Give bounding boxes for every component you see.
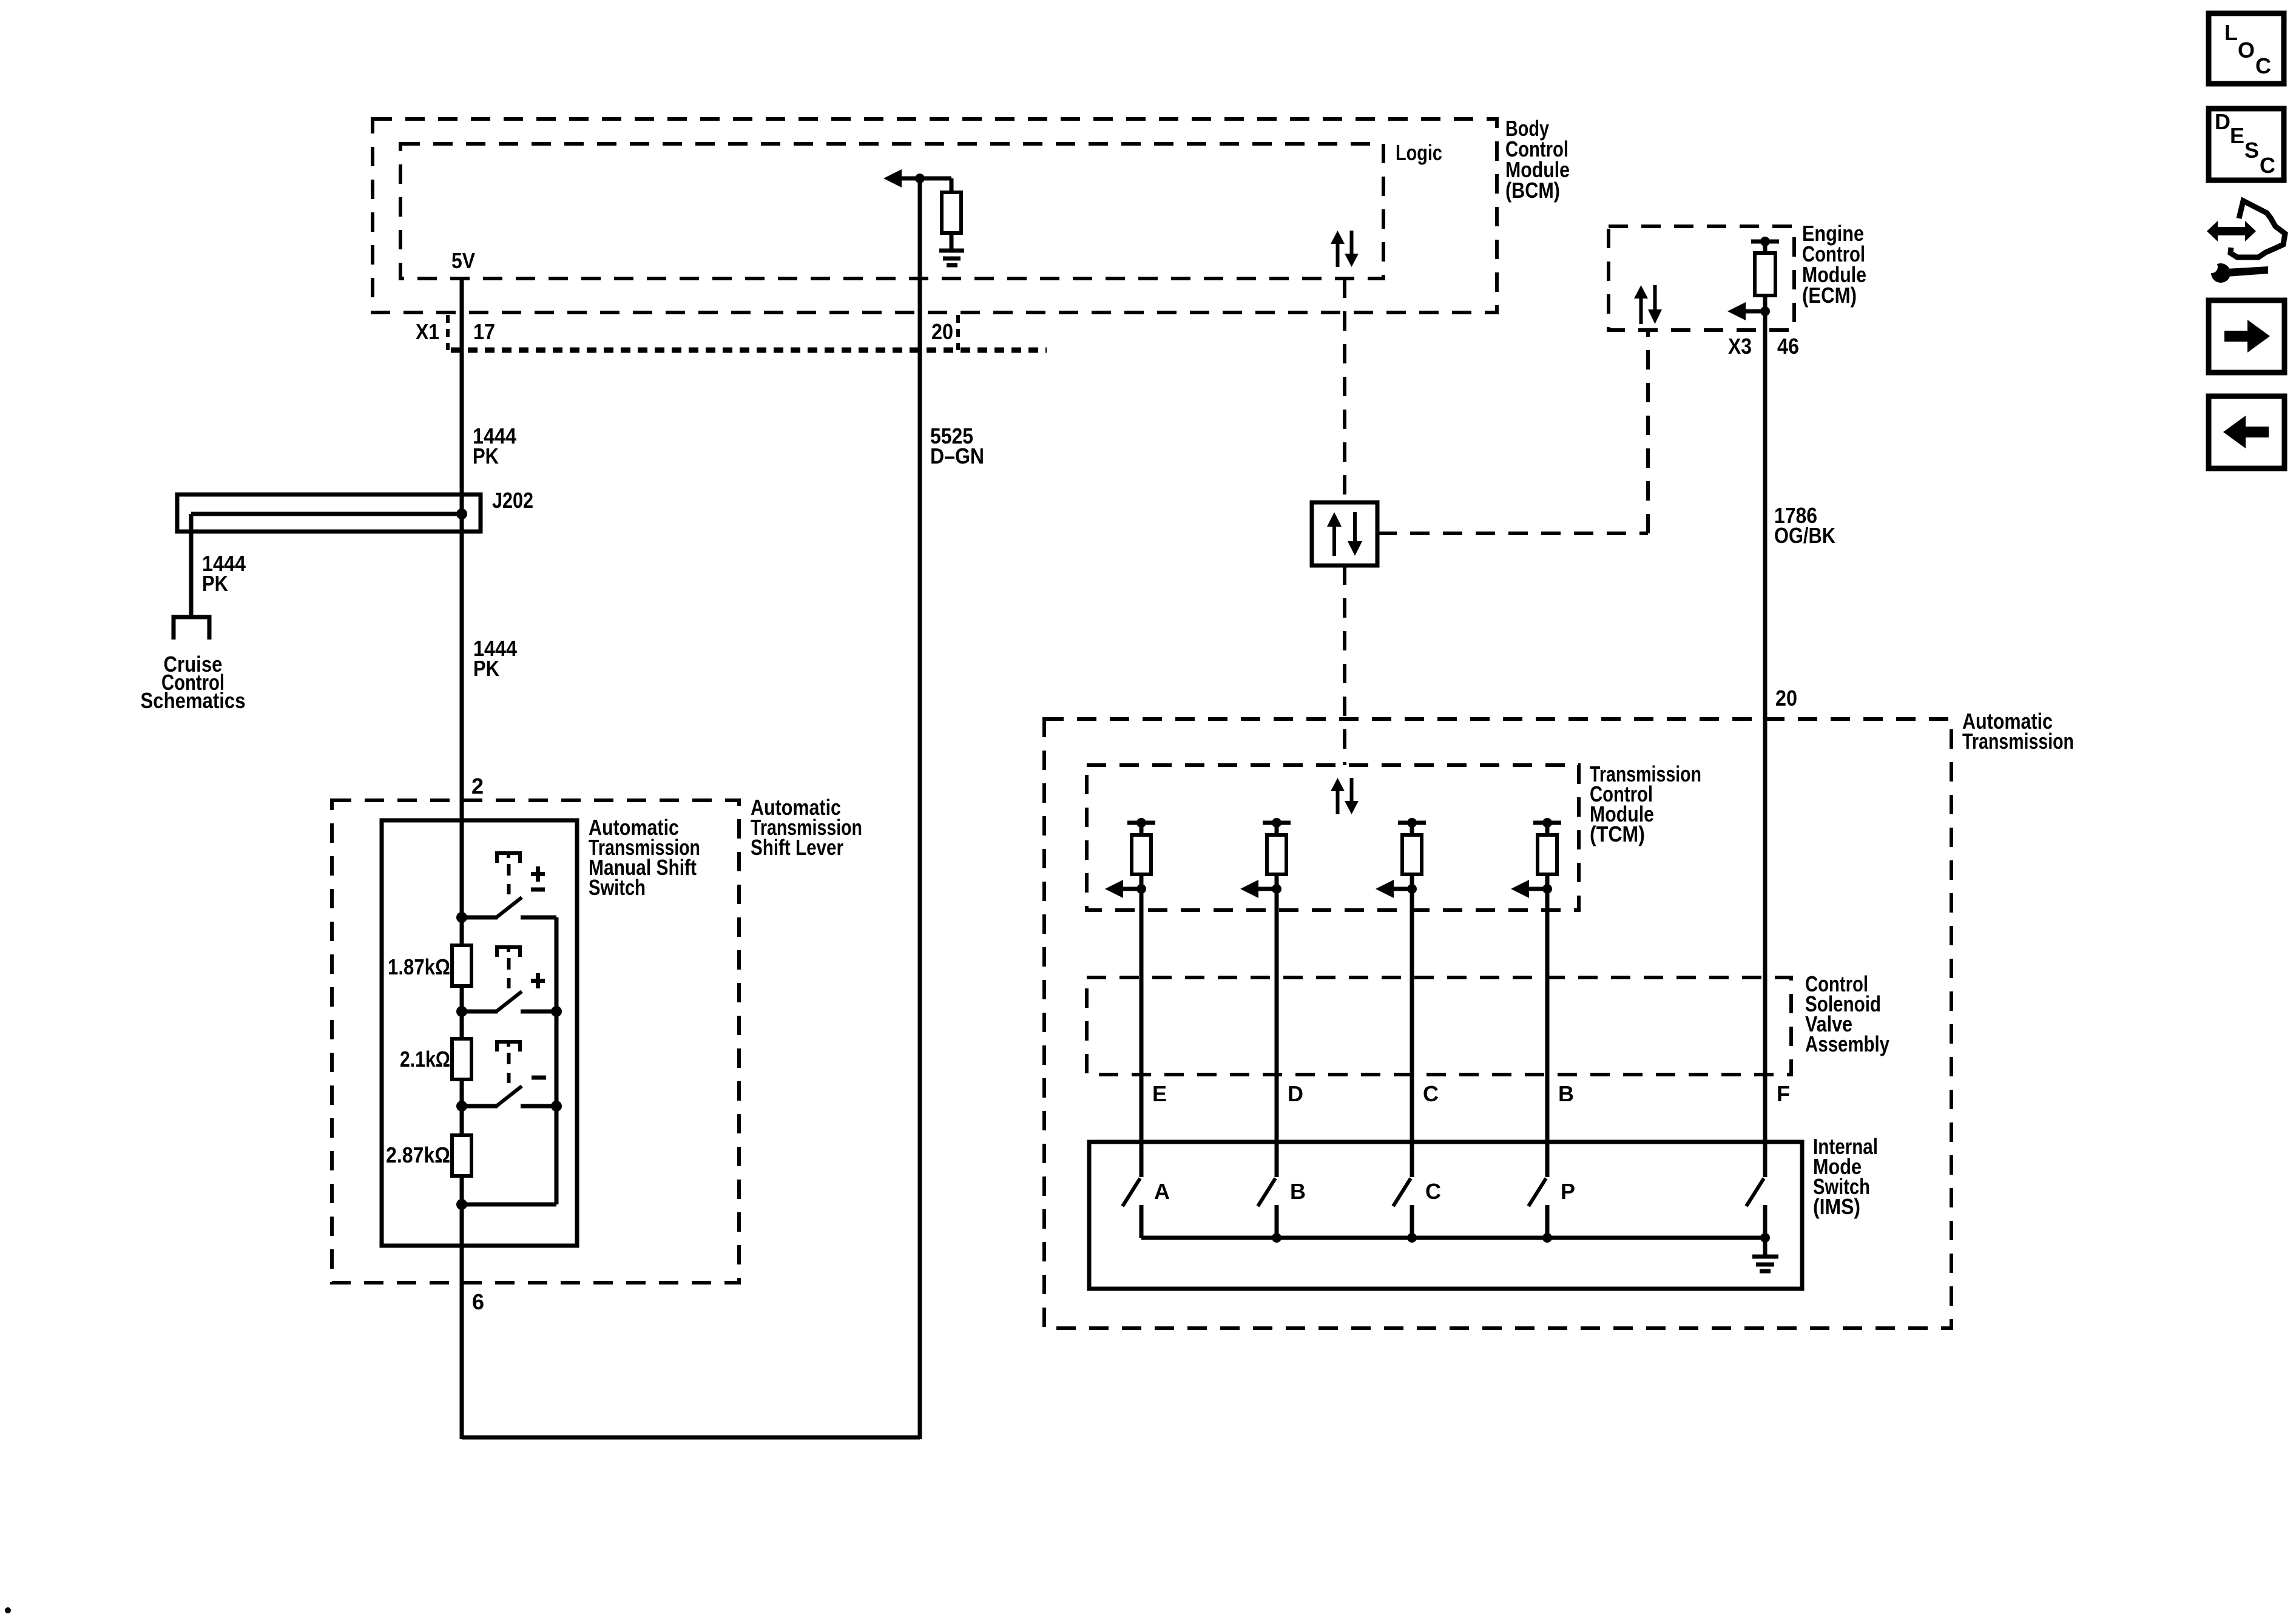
svg-text:46: 46 <box>1777 334 1799 359</box>
shift switch 3 tap down <box>456 1086 562 1112</box>
dashed serial data wire to ECM vertical <box>1646 330 1650 533</box>
Control Solenoid Valve Assembly dashed box <box>1087 977 1791 1075</box>
ECM resistor <box>1755 253 1775 295</box>
BCM resistor to ground lead <box>950 233 954 249</box>
BCM Logic inner dashed box <box>400 144 1383 279</box>
svg-text:B: B <box>1558 1081 1574 1106</box>
splice branch wire <box>191 514 462 615</box>
Automatic Transmission dashed box <box>1044 719 1951 1328</box>
symbol up-down arrows <box>1327 512 1362 556</box>
IMS common bus <box>1141 1233 1770 1243</box>
wire E vertical <box>1140 889 1144 1177</box>
TCM dashed box <box>1087 765 1579 910</box>
IMS switch F <box>1746 1178 1765 1238</box>
svg-text:20: 20 <box>1775 686 1797 711</box>
wire 1786 OG/BK vertical <box>1763 311 1768 1177</box>
resistor 1.87k <box>452 945 471 986</box>
svg-text:E: E <box>2230 123 2244 148</box>
svg-text:O: O <box>2238 38 2255 62</box>
wire B vertical <box>1545 889 1550 1177</box>
splice J202 box <box>177 495 481 532</box>
shift switch 2 tap up <box>456 991 562 1017</box>
TCM driver resistor E <box>1105 818 1155 898</box>
junction dot at J202 <box>456 508 467 519</box>
dashed serial data wire DLC to TCM <box>1343 565 1346 765</box>
svg-text:2.1kΩ: 2.1kΩ <box>400 1047 450 1072</box>
svg-text:X1: X1 <box>416 319 439 344</box>
Automatic Transmission Shift Lever dashed box <box>332 800 739 1283</box>
icon LOC box <box>2209 13 2284 84</box>
switch 3 actuator <box>497 1042 520 1083</box>
icon arrow left box <box>2209 396 2284 468</box>
svg-text:5V: 5V <box>451 248 475 273</box>
TCM serial data up-down arrows <box>1331 778 1359 814</box>
IMS switch A <box>1123 1178 1141 1238</box>
svg-text:E: E <box>1152 1081 1167 1106</box>
wire D vertical <box>1275 889 1279 1177</box>
svg-text:6: 6 <box>472 1289 484 1314</box>
svg-text:Logic: Logic <box>1396 140 1442 165</box>
svg-text:1.87kΩ: 1.87kΩ <box>388 954 450 979</box>
svg-text:C: C <box>1425 1179 1441 1204</box>
svg-text:C: C <box>2260 153 2275 178</box>
svg-text:2.87kΩ: 2.87kΩ <box>386 1143 450 1167</box>
svg-text:C: C <box>1423 1081 1439 1106</box>
svg-text:X3: X3 <box>1728 334 1752 359</box>
ECM dashed box <box>1609 226 1794 330</box>
BCM internal resistor lead <box>950 178 954 192</box>
shift switch 1 tap up/down <box>456 897 556 923</box>
BCM ground <box>939 251 964 265</box>
connector X1 dotted strip <box>448 315 1047 350</box>
icon arrow right box <box>2209 300 2284 373</box>
svg-text:C: C <box>2255 53 2271 78</box>
icon vehicle with arrow and wrench <box>2206 201 2285 283</box>
switch 2 plus symbol <box>531 973 545 988</box>
IMS switch B <box>1258 1178 1277 1238</box>
TCM driver resistor D <box>1240 818 1291 898</box>
BCM internal arrow to left <box>883 169 951 187</box>
icon DESC box <box>2209 109 2284 180</box>
IMS solid box <box>1089 1142 1802 1289</box>
ECM output arrow <box>1727 302 1770 320</box>
switch 1 actuator <box>497 853 520 894</box>
svg-text:L: L <box>2224 20 2238 45</box>
svg-text:A: A <box>1154 1179 1170 1204</box>
dashed serial data wire BCM to DLC symbol <box>1343 279 1346 502</box>
ECM resistor lower lead <box>1763 295 1768 311</box>
switch 2 actuator <box>497 947 520 988</box>
ECM serial data up-down arrows <box>1634 285 1662 324</box>
junction dot on D-GN wire <box>915 174 925 183</box>
svg-text:20: 20 <box>931 319 953 344</box>
off-page connector bracket <box>174 617 209 640</box>
TCM driver resistor C <box>1376 818 1426 898</box>
IMS switch P <box>1528 1178 1547 1238</box>
Manual Shift Switch solid box <box>382 820 577 1246</box>
svg-text:P: P <box>1561 1179 1575 1204</box>
svg-text:D: D <box>2215 109 2230 134</box>
IMS ground <box>1752 1238 1778 1271</box>
serial data connector symbol box <box>1312 502 1377 565</box>
svg-text:2: 2 <box>471 774 484 798</box>
IMS switch C <box>1393 1178 1412 1238</box>
wire 1444 PK main vertical <box>460 279 464 1439</box>
BCM outer dashed box <box>373 119 1497 312</box>
TCM driver resistor B <box>1511 818 1561 898</box>
svg-text:J202: J202 <box>492 488 533 513</box>
svg-text:B: B <box>1290 1179 1306 1204</box>
dashed serial data wire to ECM horizontal <box>1377 532 1648 535</box>
wire C vertical <box>1410 889 1414 1177</box>
page mark dot <box>5 1607 11 1613</box>
svg-text:17: 17 <box>473 319 495 344</box>
svg-text:F: F <box>1777 1081 1790 1106</box>
wire 5525 D-GN vertical <box>918 178 922 1439</box>
switch 3 minus symbol <box>532 1076 546 1080</box>
resistor 2.1k <box>452 1039 471 1079</box>
wire bottom horizontal <box>462 1436 920 1440</box>
svg-text:S: S <box>2244 138 2259 163</box>
svg-text:D: D <box>1288 1081 1303 1106</box>
BCM internal resistor <box>942 192 961 233</box>
ECM resistor top bar <box>1751 237 1779 253</box>
switch 1 plus-minus symbol <box>531 866 545 890</box>
resistor 2.87k <box>452 1135 471 1176</box>
switch right rail <box>456 917 556 1210</box>
BCM logic serial data up-down arrows <box>1331 231 1359 267</box>
